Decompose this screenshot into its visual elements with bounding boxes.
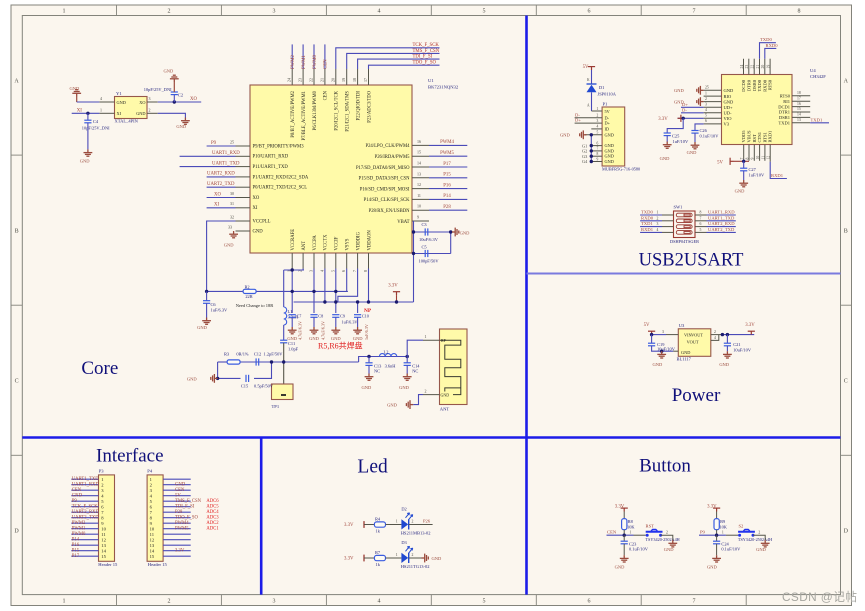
svg-text:GND: GND bbox=[331, 336, 341, 341]
svg-text:GND: GND bbox=[136, 111, 145, 116]
svg-text:PWM1: PWM1 bbox=[72, 526, 86, 531]
svg-text:10uF/6.3V: 10uF/6.3V bbox=[419, 237, 439, 242]
svg-text:TCK_F_SCK: TCK_F_SCK bbox=[72, 504, 98, 509]
svg-text:VOUT: VOUT bbox=[691, 333, 703, 338]
svg-text:P7/BLE_ACTIVE/PWM1: P7/BLE_ACTIVE/PWM1 bbox=[302, 90, 307, 140]
svg-text:DCD1: DCD1 bbox=[778, 104, 790, 109]
svg-text:R7: R7 bbox=[375, 550, 381, 555]
svg-text:UART1_TXD: UART1_TXD bbox=[72, 477, 99, 482]
D+/D- wires to U4 bbox=[681, 106, 704, 108]
svg-text:4: 4 bbox=[378, 599, 381, 605]
svg-text:TXD1: TXD1 bbox=[779, 121, 791, 126]
resistor R2 22R bbox=[243, 289, 256, 293]
svg-text:P26/IRDA/PWM5: P26/IRDA/PWM5 bbox=[375, 155, 411, 160]
svg-text:9: 9 bbox=[417, 215, 419, 220]
svg-text:TDO_F_SO: TDO_F_SO bbox=[175, 516, 199, 521]
svg-text:8: 8 bbox=[597, 152, 599, 156]
5V power port bbox=[648, 331, 655, 334]
svg-text:11: 11 bbox=[101, 532, 106, 537]
GND right of C3 bbox=[452, 228, 459, 237]
svg-text:P28: P28 bbox=[175, 510, 183, 515]
svg-text:UART2_TXD: UART2_TXD bbox=[72, 515, 99, 520]
svg-text:Y1: Y1 bbox=[116, 91, 122, 96]
svg-text:GND: GND bbox=[309, 336, 319, 341]
svg-text:P14/SD_CLK/SPI_SCK: P14/SD_CLK/SPI_SCK bbox=[364, 198, 410, 203]
svg-text:GND: GND bbox=[605, 132, 614, 137]
svg-text:RI1: RI1 bbox=[783, 99, 790, 104]
U1 pin numbers bbox=[228, 78, 421, 272]
capacitor C12 bbox=[256, 358, 259, 365]
svg-text:CH342F: CH342F bbox=[810, 74, 826, 79]
svg-text:9: 9 bbox=[597, 157, 599, 161]
svg-text:Led: Led bbox=[357, 456, 388, 477]
svg-text:UD+: UD+ bbox=[724, 105, 733, 110]
capacitor C25 bbox=[667, 118, 683, 133]
svg-text:ID: ID bbox=[605, 126, 610, 131]
svg-text:GND: GND bbox=[605, 148, 614, 153]
svg-text:D-: D- bbox=[605, 115, 610, 120]
net labels U1 left bbox=[207, 141, 240, 208]
svg-text:24: 24 bbox=[287, 78, 292, 82]
svg-text:TSY3420-2502A4H: TSY3420-2502A4H bbox=[646, 537, 680, 542]
svg-text:P15: P15 bbox=[72, 548, 80, 553]
svg-text:GND: GND bbox=[687, 150, 697, 155]
svg-text:2: 2 bbox=[758, 530, 760, 534]
svg-text:P9/BT_PRIORITY/PWM3: P9/BT_PRIORITY/PWM3 bbox=[253, 144, 305, 149]
svg-text:1uF/6.3V: 1uF/6.3V bbox=[211, 308, 229, 313]
svg-text:RF: RF bbox=[441, 338, 447, 343]
svg-text:TP1: TP1 bbox=[272, 404, 280, 409]
svg-text:Power: Power bbox=[672, 385, 721, 406]
svg-text:TXD1: TXD1 bbox=[811, 117, 823, 122]
svg-text:C25: C25 bbox=[672, 133, 680, 138]
svg-text:CSDN @记帖: CSDN @记帖 bbox=[782, 590, 857, 604]
svg-text:6: 6 bbox=[588, 599, 591, 605]
svg-text:23: 23 bbox=[745, 65, 749, 69]
svg-text:0R/1%: 0R/1% bbox=[236, 352, 249, 357]
svg-text:1uF/10V: 1uF/10V bbox=[749, 173, 765, 178]
svg-text:17: 17 bbox=[363, 78, 368, 82]
switch SW1 DSHP04TSGER bbox=[674, 211, 696, 238]
svg-text:13: 13 bbox=[417, 171, 421, 176]
C19 to U3 GND pin wire bbox=[652, 346, 674, 351]
svg-text:D-: D- bbox=[682, 108, 687, 113]
svg-text:A: A bbox=[587, 104, 590, 108]
svg-text:CEN: CEN bbox=[72, 488, 82, 493]
svg-text:PWM5: PWM5 bbox=[440, 151, 454, 156]
svg-text:GND: GND bbox=[724, 99, 734, 104]
svg-text:5: 5 bbox=[705, 114, 707, 118]
svg-text:P9: P9 bbox=[700, 530, 706, 535]
svg-text:UART2_TXD: UART2_TXD bbox=[207, 182, 235, 187]
svg-text:GND: GND bbox=[441, 392, 450, 397]
svg-text:1: 1 bbox=[705, 91, 707, 95]
svg-text:L1: L1 bbox=[288, 309, 293, 314]
svg-text:C5: C5 bbox=[422, 245, 428, 250]
G1-G4 labels bbox=[582, 143, 588, 164]
svg-text:6: 6 bbox=[597, 141, 599, 145]
svg-text:GND: GND bbox=[432, 556, 442, 561]
svg-text:1: 1 bbox=[396, 553, 398, 557]
svg-text:P17: P17 bbox=[443, 162, 451, 167]
svg-text:CEN: CEN bbox=[607, 530, 617, 535]
svg-text:20: 20 bbox=[330, 78, 335, 82]
svg-text:XTAL_4PIN: XTAL_4PIN bbox=[115, 119, 139, 124]
svg-text:ADC6: ADC6 bbox=[206, 499, 219, 504]
svg-text:UART1_RXD: UART1_RXD bbox=[212, 151, 240, 156]
svg-text:7: 7 bbox=[693, 9, 696, 15]
svg-text:3: 3 bbox=[273, 9, 276, 15]
svg-text:GND: GND bbox=[70, 86, 80, 91]
svg-text:VCCRAFE: VCCRAFE bbox=[291, 229, 296, 251]
output pins 2/4 bbox=[711, 334, 723, 336]
svg-text:P8/BT_ACTIVE/PWM2: P8/BT_ACTIVE/PWM2 bbox=[291, 90, 296, 137]
svg-text:P17/SD_DATA0/SPI_MISO: P17/SD_DATA0/SPI_MISO bbox=[356, 166, 410, 171]
svg-text:USB2USART: USB2USART bbox=[639, 251, 744, 271]
svg-text:P16/SD_CMD/SPI_MOSI: P16/SD_CMD/SPI_MOSI bbox=[360, 187, 410, 192]
svg-text:PWM5: PWM5 bbox=[175, 527, 189, 532]
svg-text:RXD0: RXD0 bbox=[766, 43, 779, 48]
svg-text:PWM4: PWM4 bbox=[175, 521, 189, 526]
svg-text:C10: C10 bbox=[362, 314, 369, 319]
svg-text:TXD0: TXD0 bbox=[757, 79, 762, 91]
svg-text:10pF/25V_DNI: 10pF/25V_DNI bbox=[82, 126, 110, 131]
svg-text:GND: GND bbox=[72, 493, 83, 498]
regulator U3 BL1117 body bbox=[678, 329, 711, 357]
svg-text:UART2_RXD: UART2_RXD bbox=[708, 221, 735, 226]
svg-text:1: 1 bbox=[63, 599, 66, 605]
svg-text:3: 3 bbox=[273, 599, 276, 605]
svg-text:PWM4: PWM4 bbox=[440, 140, 454, 145]
U4 bottom pin names vertical bbox=[741, 130, 773, 143]
RXD1 wire below U4 bbox=[770, 162, 787, 179]
svg-text:VDDDIG: VDDDIG bbox=[356, 231, 361, 250]
U1 top pin names (vertical) bbox=[291, 90, 372, 140]
svg-text:DTR0: DTR0 bbox=[747, 79, 752, 91]
U4 right pin names bbox=[778, 94, 791, 126]
svg-text:1: 1 bbox=[630, 531, 632, 535]
capacitor C2 bbox=[173, 95, 175, 102]
svg-text:UART2_TXD: UART2_TXD bbox=[708, 227, 735, 232]
svg-text:21: 21 bbox=[319, 78, 324, 82]
svg-text:10uF/10V: 10uF/10V bbox=[733, 348, 752, 353]
svg-text:CEN: CEN bbox=[324, 90, 329, 100]
svg-text:GND: GND bbox=[224, 243, 234, 248]
capacitor C23 bbox=[623, 535, 625, 541]
svg-text:RXD0: RXD0 bbox=[641, 215, 654, 220]
svg-text:RXD0: RXD0 bbox=[762, 79, 767, 92]
svg-text:3.6nH: 3.6nH bbox=[385, 363, 397, 368]
output wire bbox=[722, 334, 754, 336]
svg-text:16: 16 bbox=[417, 139, 421, 144]
P3 net labels bbox=[72, 477, 100, 559]
P1 pin stubs bbox=[575, 111, 603, 162]
svg-text:13: 13 bbox=[797, 118, 801, 122]
svg-text:3: 3 bbox=[662, 330, 664, 334]
svg-text:0.1uF/10V: 0.1uF/10V bbox=[700, 134, 720, 139]
svg-text:12: 12 bbox=[767, 156, 771, 160]
svg-text:PWM2: PWM2 bbox=[72, 521, 86, 526]
svg-text:13: 13 bbox=[101, 543, 106, 548]
svg-text:C4: C4 bbox=[93, 119, 99, 124]
capacitor C11 bbox=[283, 325, 285, 340]
svg-text:VDD5: VDD5 bbox=[741, 130, 746, 143]
svg-text:P0/UART2_TXD/I2C2_SCL: P0/UART2_TXD/I2C2_SCL bbox=[253, 186, 308, 191]
svg-text:NC: NC bbox=[412, 369, 418, 374]
svg-text:1: 1 bbox=[722, 531, 724, 535]
svg-text:NC: NC bbox=[374, 369, 380, 374]
svg-text:VCCTX: VCCTX bbox=[324, 234, 329, 251]
svg-text:6: 6 bbox=[588, 9, 591, 15]
svg-text:P9: P9 bbox=[211, 141, 217, 146]
svg-text:R3: R3 bbox=[224, 352, 230, 357]
svg-text:GND: GND bbox=[707, 564, 717, 569]
capacitor C15 bbox=[246, 375, 249, 382]
svg-text:RTS0: RTS0 bbox=[780, 94, 791, 99]
capacitor C24 bbox=[716, 535, 718, 541]
svg-text:VIO: VIO bbox=[724, 116, 733, 121]
svg-text:10: 10 bbox=[101, 526, 106, 531]
svg-text:12: 12 bbox=[101, 537, 106, 542]
svg-text:2: 2 bbox=[149, 107, 151, 112]
P4 pin numbers bbox=[150, 477, 155, 559]
header P4 body bbox=[147, 475, 163, 561]
GND left of RF row bbox=[211, 374, 218, 383]
svg-text:XO: XO bbox=[139, 100, 145, 105]
diode D1 JSP0110A bbox=[591, 70, 593, 84]
svg-text:14: 14 bbox=[101, 548, 106, 553]
svg-text:P1: P1 bbox=[603, 102, 609, 107]
P3 pin numbers bbox=[101, 477, 106, 559]
capacitor C13 bbox=[368, 357, 370, 363]
svg-text:R2: R2 bbox=[244, 284, 249, 289]
svg-text:16: 16 bbox=[797, 102, 801, 106]
svg-text:15: 15 bbox=[797, 107, 801, 111]
svg-text:S2: S2 bbox=[739, 524, 745, 529]
input wire bbox=[652, 334, 666, 336]
svg-text:D+: D+ bbox=[682, 102, 688, 107]
resistor R7 1k bbox=[374, 555, 385, 560]
svg-text:ADC5: ADC5 bbox=[206, 505, 219, 510]
svg-text:UART1_TXD: UART1_TXD bbox=[212, 161, 240, 166]
svg-text:RIO: RIO bbox=[724, 94, 733, 99]
svg-text:P9: P9 bbox=[72, 499, 78, 504]
svg-text:1: 1 bbox=[396, 520, 398, 524]
svg-text:P20/I2C1_SCL/TCK: P20/I2C1_SCL/TCK bbox=[335, 90, 340, 130]
svg-text:4: 4 bbox=[597, 125, 599, 129]
svg-text:CEN: CEN bbox=[324, 59, 329, 69]
diode D2 LED bbox=[401, 519, 408, 529]
svg-text:11: 11 bbox=[761, 156, 765, 160]
svg-text:P17: P17 bbox=[72, 554, 80, 559]
svg-text:TCK_F_SCK: TCK_F_SCK bbox=[413, 43, 440, 48]
svg-text:GND: GND bbox=[724, 88, 734, 93]
3.3V power port bbox=[748, 331, 755, 334]
svg-text:XO: XO bbox=[253, 196, 260, 201]
P9 net wire bbox=[699, 534, 726, 536]
svg-text:1: 1 bbox=[657, 211, 659, 215]
svg-text:19: 19 bbox=[766, 65, 770, 69]
svg-text:32: 32 bbox=[230, 214, 234, 219]
svg-text:MUBFR5G-716-0580: MUBFR5G-716-0580 bbox=[602, 167, 640, 172]
svg-text:14: 14 bbox=[797, 113, 801, 117]
svg-text:33: 33 bbox=[228, 224, 232, 229]
diode D3 LED bbox=[401, 553, 408, 563]
svg-text:2: 2 bbox=[412, 520, 414, 524]
svg-text:18: 18 bbox=[797, 91, 801, 95]
svg-text:P24/LPO_CLK/PWM4: P24/LPO_CLK/PWM4 bbox=[365, 144, 410, 149]
svg-text:BL1117: BL1117 bbox=[677, 357, 692, 362]
svg-text:DSHP04TSGER: DSHP04TSGER bbox=[670, 239, 699, 244]
svg-text:C3: C3 bbox=[422, 222, 428, 227]
svg-text:GND: GND bbox=[197, 325, 207, 330]
svg-text:GND: GND bbox=[80, 159, 90, 164]
svg-text:XI: XI bbox=[117, 111, 122, 116]
svg-text:4.7uF/6.3V: 4.7uF/6.3V bbox=[321, 321, 326, 340]
svg-text:ADC4: ADC4 bbox=[206, 510, 219, 515]
svg-text:A: A bbox=[14, 79, 19, 85]
U1 left pin names bbox=[253, 144, 309, 234]
svg-text:GND: GND bbox=[362, 385, 372, 390]
U4 left pin names bbox=[724, 88, 734, 127]
U4 top pin names vertical bbox=[741, 79, 773, 92]
CEN net wire bbox=[607, 534, 634, 536]
svg-text:GND: GND bbox=[399, 385, 409, 390]
svg-text:G2: G2 bbox=[582, 149, 587, 154]
svg-text:12: 12 bbox=[150, 537, 155, 542]
svg-text:0.5pF/50V: 0.5pF/50V bbox=[254, 384, 274, 389]
svg-text:P14: P14 bbox=[72, 537, 80, 542]
svg-text:GND: GND bbox=[605, 154, 614, 159]
svg-text:3: 3 bbox=[309, 270, 314, 272]
svg-text:9: 9 bbox=[751, 158, 755, 160]
header P3 body bbox=[99, 475, 115, 561]
5V power to VDD5 bbox=[734, 160, 750, 162]
JTAG wires to TCK/TMS/TDI/TDO bbox=[336, 48, 440, 69]
IC U4 CH342F body bbox=[722, 75, 793, 145]
svg-text:C15: C15 bbox=[241, 384, 249, 389]
svg-text:TDI_F_SI: TDI_F_SI bbox=[413, 55, 433, 60]
svg-text:7: 7 bbox=[740, 158, 744, 160]
svg-text:D3: D3 bbox=[401, 540, 407, 545]
svg-text:ANT: ANT bbox=[302, 241, 307, 251]
svg-text:XO: XO bbox=[214, 192, 221, 197]
svg-text:3: 3 bbox=[657, 222, 659, 226]
svg-text:6: 6 bbox=[341, 270, 346, 272]
svg-text:C2: C2 bbox=[178, 93, 183, 98]
svg-text:GND: GND bbox=[681, 350, 690, 355]
svg-text:D+: D+ bbox=[605, 121, 611, 126]
svg-text:P14: P14 bbox=[443, 194, 451, 199]
svg-text:5V: 5V bbox=[717, 160, 723, 165]
svg-text:5: 5 bbox=[483, 599, 486, 605]
svg-text:P11/UART1_TXD: P11/UART1_TXD bbox=[253, 165, 289, 170]
svg-text:P15/SD_DATA3/SPI_CSN: P15/SD_DATA3/SPI_CSN bbox=[359, 177, 411, 182]
VCCPLL rail and R2 bbox=[207, 290, 348, 292]
svg-text:VCCPA: VCCPA bbox=[313, 235, 318, 251]
svg-text:XI: XI bbox=[77, 108, 82, 113]
svg-text:5: 5 bbox=[330, 270, 335, 272]
svg-text:G4: G4 bbox=[582, 159, 588, 164]
svg-text:HS211TG13-02: HS211TG13-02 bbox=[401, 564, 430, 569]
svg-text:P16: P16 bbox=[443, 183, 451, 188]
svg-text:Header 15: Header 15 bbox=[98, 562, 118, 567]
svg-text:RTS1: RTS1 bbox=[762, 132, 767, 142]
wire Y1 pin2 to GND bbox=[158, 113, 186, 117]
inductor L1 bbox=[284, 307, 287, 325]
svg-text:100pF/50V: 100pF/50V bbox=[419, 259, 440, 264]
wires at U1 left bbox=[180, 146, 236, 291]
svg-text:P1/UART2_RXD/I2C2_SDA: P1/UART2_RXD/I2C2_SDA bbox=[253, 175, 309, 180]
3.3V power to VBAT rail bbox=[294, 301, 414, 303]
svg-text:6: 6 bbox=[700, 222, 702, 226]
svg-text:BK7231NQN32: BK7231NQN32 bbox=[428, 85, 459, 90]
svg-text:1uF/6.3V: 1uF/6.3V bbox=[364, 324, 369, 340]
svg-text:15: 15 bbox=[150, 554, 155, 559]
svg-text:GND: GND bbox=[253, 229, 264, 234]
svg-text:4.7uF/6.3V: 4.7uF/6.3V bbox=[298, 321, 303, 340]
svg-text:2: 2 bbox=[168, 9, 171, 15]
svg-text:Interface: Interface bbox=[96, 446, 164, 467]
resistor R3 bbox=[227, 360, 240, 364]
svg-text:L2: L2 bbox=[384, 350, 389, 355]
svg-text:C: C bbox=[844, 379, 848, 385]
svg-text:12: 12 bbox=[417, 182, 421, 187]
svg-text:14: 14 bbox=[150, 548, 155, 553]
svg-text:GND: GND bbox=[187, 376, 197, 381]
svg-text:CEN: CEN bbox=[175, 488, 185, 493]
svg-text:11: 11 bbox=[417, 193, 421, 198]
svg-text:U1: U1 bbox=[428, 78, 434, 83]
svg-text:U3: U3 bbox=[679, 323, 685, 328]
svg-text:R4: R4 bbox=[375, 517, 381, 522]
svg-text:1: 1 bbox=[63, 9, 66, 15]
svg-text:GND: GND bbox=[653, 362, 663, 367]
svg-text:UART1_TXD: UART1_TXD bbox=[708, 215, 735, 220]
svg-text:8: 8 bbox=[798, 9, 801, 15]
svg-text:VDDAON: VDDAON bbox=[367, 230, 372, 251]
svg-text:1: 1 bbox=[597, 107, 599, 111]
svg-text:XI: XI bbox=[214, 203, 219, 208]
svg-text:UD-: UD- bbox=[724, 111, 732, 116]
svg-text:C12: C12 bbox=[254, 352, 261, 357]
resistor R9 10K bbox=[714, 519, 719, 530]
svg-text:C9: C9 bbox=[340, 314, 345, 319]
svg-text:C: C bbox=[15, 379, 19, 385]
svg-text:GND: GND bbox=[719, 362, 729, 367]
svg-text:18: 18 bbox=[352, 78, 357, 82]
svg-text:GND: GND bbox=[605, 143, 614, 148]
capacitor C19 bbox=[651, 335, 653, 344]
wire Y1 pin4 bbox=[77, 101, 100, 103]
svg-text:ADC3: ADC3 bbox=[206, 516, 219, 521]
svg-text:D2: D2 bbox=[401, 506, 406, 511]
svg-text:Core: Core bbox=[81, 358, 118, 379]
svg-text:7: 7 bbox=[352, 270, 357, 272]
svg-text:8: 8 bbox=[700, 211, 702, 215]
svg-text:10: 10 bbox=[150, 526, 155, 531]
svg-text:GND: GND bbox=[660, 156, 670, 161]
svg-text:3: 3 bbox=[705, 103, 707, 107]
crystal Y1 bbox=[115, 97, 148, 119]
svg-text:HS211MB13-02: HS211MB13-02 bbox=[401, 531, 431, 536]
decoupling caps C7 C8 C9 C10 bbox=[289, 315, 296, 318]
svg-text:24: 24 bbox=[740, 65, 744, 69]
svg-text:C8: C8 bbox=[318, 314, 323, 319]
svg-text:2: 2 bbox=[657, 216, 659, 220]
TXD0/RXD0 wires above U4 bbox=[760, 43, 776, 59]
svg-text:22: 22 bbox=[309, 78, 314, 82]
